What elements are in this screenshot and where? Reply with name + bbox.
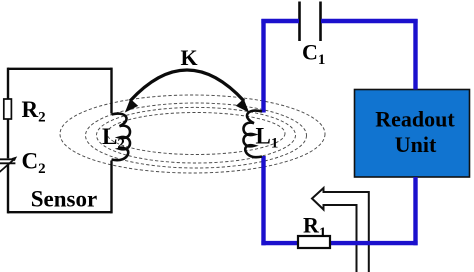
svg-text:Readout: Readout bbox=[375, 107, 455, 132]
resistor R1 body bbox=[298, 236, 330, 248]
sensor loop: top wire bbox=[8, 68, 112, 70]
svg-text:L2: L2 bbox=[102, 124, 125, 152]
readout unit box bbox=[355, 90, 470, 178]
blue loop: top wire left of C1 bbox=[261, 19, 299, 23]
flux line (third dashed ellipse) bbox=[97, 107, 296, 163]
coupling arc left arrowhead bbox=[126, 100, 138, 112]
sensor loop: bottom wire bbox=[8, 211, 112, 213]
svg-text:L1: L1 bbox=[256, 124, 279, 152]
svg-text:C2: C2 bbox=[22, 149, 46, 178]
blue loop: right wire upper (to readout unit) bbox=[413, 19, 417, 90]
coupling arc right arrowhead bbox=[237, 100, 249, 112]
hollow bent arrow into R1 (excitation input) bbox=[312, 188, 369, 272]
flux line (inner dashed ellipse) bbox=[107, 113, 285, 155]
svg-text:Unit: Unit bbox=[395, 132, 437, 157]
blue loop: left wire upper segment bbox=[261, 19, 265, 113]
capacitor C1 plates bbox=[300, 2, 321, 42]
variable capacitor C2 plates bbox=[0, 159, 15, 163]
coupling arc K bbox=[130, 70, 244, 101]
inductor L2 coil bbox=[112, 114, 131, 161]
svg-text:Sensor: Sensor bbox=[31, 187, 97, 212]
flux line (outer dashed ellipse) bbox=[60, 95, 325, 173]
sensor loop: right wire upper segment bbox=[110, 68, 112, 114]
svg-text:C1: C1 bbox=[302, 40, 325, 69]
svg-text:R2: R2 bbox=[22, 97, 46, 126]
blue loop: right wire lower (from readout unit) bbox=[413, 177, 417, 245]
sensor loop: right wire lower segment bbox=[110, 161, 112, 214]
blue loop: bottom wire right of R1 bbox=[330, 241, 418, 245]
svg-text:K: K bbox=[181, 45, 198, 70]
flux line (second dashed ellipse) bbox=[86, 103, 307, 168]
svg-text:R1: R1 bbox=[303, 213, 326, 242]
resistor R2 body bbox=[4, 99, 12, 119]
blue loop: top wire right of C1 bbox=[321, 19, 418, 23]
sensor loop: left wire upper segment bbox=[7, 68, 9, 100]
variable capacitor C2 arrow bbox=[0, 159, 14, 172]
blue loop: left wire lower segment bbox=[261, 156, 265, 245]
sensor loop: left wire middle segment bbox=[7, 119, 9, 159]
sensor loop: left wire lower segment bbox=[7, 164, 9, 213]
inductor L1 coil bbox=[244, 111, 263, 158]
blue loop: bottom wire left of R1 bbox=[261, 241, 298, 245]
